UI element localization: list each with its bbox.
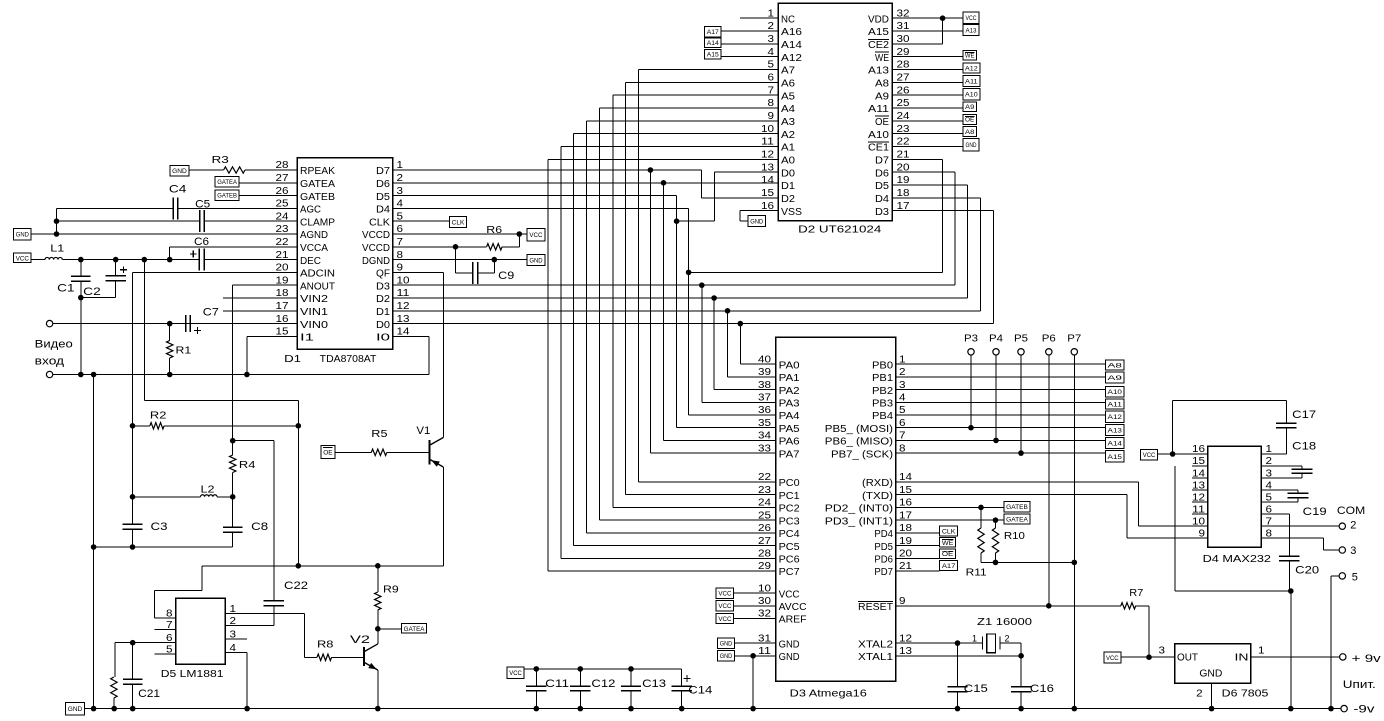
svg-text:D4: D4 (875, 194, 889, 205)
svg-text:A12: A12 (965, 66, 978, 73)
svg-text:3: 3 (1350, 545, 1356, 557)
svg-text:DGND: DGND (362, 256, 390, 267)
svg-text:C5: C5 (195, 199, 210, 211)
svg-text:D2: D2 (781, 194, 795, 205)
svg-text:VCCA: VCCA (300, 243, 328, 254)
svg-text:GND: GND (720, 653, 733, 660)
svg-text:C4: C4 (169, 184, 187, 196)
svg-text:PC3: PC3 (779, 516, 800, 527)
svg-text:D2: D2 (376, 294, 390, 305)
svg-text:PB6_ (MISO): PB6_ (MISO) (825, 437, 893, 448)
svg-text:A17: A17 (942, 563, 956, 570)
svg-text:RPEAK: RPEAK (300, 166, 335, 177)
svg-text:D3: D3 (875, 207, 889, 218)
svg-text:вход: вход (35, 356, 65, 368)
svg-text:GATEA: GATEA (300, 179, 335, 190)
svg-text:I0: I0 (376, 333, 391, 344)
svg-text:WE: WE (965, 53, 975, 60)
svg-text:NC: NC (781, 14, 795, 25)
svg-text:XTAL1: XTAL1 (858, 652, 893, 663)
svg-text:A8: A8 (875, 79, 889, 90)
svg-text:GND: GND (965, 142, 976, 149)
svg-text:PB2: PB2 (872, 386, 893, 397)
svg-text:A17: A17 (707, 29, 719, 36)
svg-text:R11: R11 (966, 568, 988, 579)
svg-text:CE1: CE1 (868, 143, 889, 154)
svg-text:GND: GND (1199, 668, 1222, 679)
svg-text:GATEB: GATEB (217, 193, 237, 200)
svg-text:R9: R9 (383, 585, 399, 596)
svg-text:PC5: PC5 (779, 542, 800, 553)
svg-text:A9: A9 (875, 91, 889, 102)
svg-text:GND: GND (16, 232, 29, 239)
svg-text:PA7: PA7 (779, 449, 800, 460)
svg-text:AVCC: AVCC (779, 602, 807, 613)
svg-text:CE2: CE2 (868, 40, 889, 51)
svg-text:C2: C2 (83, 286, 101, 298)
svg-text:PC1: PC1 (779, 491, 800, 502)
svg-text:QF: QF (376, 269, 390, 280)
svg-text:VIN2: VIN2 (300, 294, 329, 305)
svg-text:VCC: VCC (1106, 655, 1119, 662)
svg-text:A10: A10 (1108, 389, 1123, 396)
svg-text:PD3_ (INT1): PD3_ (INT1) (825, 516, 893, 527)
svg-text:C7: C7 (203, 307, 219, 319)
svg-text:P5: P5 (1014, 333, 1028, 344)
svg-text:PB3: PB3 (872, 399, 893, 410)
svg-text:AREF: AREF (779, 615, 807, 626)
svg-text:P3: P3 (964, 333, 978, 344)
svg-text:D3 Atmega16: D3 Atmega16 (790, 688, 868, 699)
svg-text:C3: C3 (151, 521, 168, 533)
svg-text:A14: A14 (781, 40, 803, 51)
svg-text:C17: C17 (1292, 409, 1316, 421)
svg-text:5: 5 (1352, 572, 1358, 584)
svg-text:C22: C22 (284, 580, 308, 592)
svg-text:AGND: AGND (300, 230, 328, 241)
svg-text:C18: C18 (1292, 441, 1316, 453)
svg-text:PB7_ (SCK): PB7_ (SCK) (831, 449, 893, 460)
svg-text:VDD: VDD (868, 14, 889, 25)
svg-text:P4: P4 (989, 333, 1003, 344)
svg-text:VCCD: VCCD (362, 230, 390, 241)
svg-text:A10: A10 (965, 92, 978, 99)
svg-text:VIN1: VIN1 (300, 307, 329, 318)
svg-text:VCC: VCC (16, 255, 29, 262)
svg-text:IN: IN (1235, 652, 1249, 663)
svg-text:PC6: PC6 (779, 554, 800, 565)
svg-text:2: 2 (1196, 689, 1203, 700)
svg-text:RESET: RESET (858, 602, 893, 613)
svg-text:A11: A11 (868, 104, 890, 115)
svg-text:GND: GND (750, 219, 763, 226)
svg-text:D5 LM1881: D5 LM1881 (161, 669, 224, 680)
svg-text:PA2: PA2 (779, 386, 800, 397)
svg-text:A11: A11 (965, 78, 978, 85)
svg-text:GND: GND (720, 641, 733, 648)
svg-text:A1: A1 (781, 143, 795, 154)
svg-text:A15: A15 (707, 52, 719, 59)
svg-text:PA5: PA5 (779, 424, 800, 435)
svg-text:GND: GND (779, 652, 800, 663)
svg-text:D4: D4 (376, 205, 390, 216)
svg-text:VCC: VCC (529, 232, 542, 239)
svg-text:A0: A0 (781, 156, 795, 167)
svg-text:PB1: PB1 (872, 373, 893, 384)
svg-text:PC0: PC0 (779, 478, 800, 489)
svg-text:A13: A13 (868, 66, 890, 77)
svg-text:C6: C6 (194, 236, 209, 248)
svg-text:A8: A8 (1108, 363, 1123, 370)
svg-text:P7: P7 (1067, 333, 1081, 344)
svg-text:L2: L2 (201, 485, 216, 496)
svg-text:C19: C19 (1303, 506, 1327, 518)
svg-text:VCC: VCC (1143, 452, 1156, 459)
svg-text:GND: GND (172, 168, 187, 175)
svg-text:A9: A9 (965, 104, 975, 111)
svg-text:D1: D1 (284, 354, 302, 365)
svg-text:1: 1 (1258, 645, 1265, 656)
svg-text:VCCD: VCCD (362, 243, 390, 254)
svg-text:3: 3 (1159, 645, 1166, 656)
svg-text:PB4: PB4 (872, 411, 893, 422)
svg-text:Z1 16000: Z1 16000 (977, 617, 1033, 628)
svg-text:D1: D1 (376, 307, 390, 318)
svg-text:VCC: VCC (779, 589, 800, 600)
svg-text:GND: GND (68, 706, 83, 713)
svg-text:D6: D6 (376, 179, 390, 190)
svg-text:AGC: AGC (300, 205, 321, 216)
svg-text:R10: R10 (1004, 531, 1025, 542)
svg-text:D2 UT621024: D2 UT621024 (798, 225, 882, 236)
svg-text:D7: D7 (376, 166, 390, 177)
svg-text:A10: A10 (868, 130, 890, 141)
svg-text:PB0: PB0 (872, 360, 893, 371)
svg-text:PD7: PD7 (874, 567, 893, 578)
svg-text:PC2: PC2 (779, 504, 800, 515)
svg-text:C9: C9 (498, 270, 514, 282)
svg-text:C1: C1 (57, 283, 74, 295)
svg-text:R6: R6 (486, 225, 502, 236)
svg-text:A14: A14 (1108, 441, 1123, 448)
svg-text:-9v: -9v (1353, 704, 1375, 716)
svg-text:C12: C12 (591, 678, 615, 690)
svg-text:PC7: PC7 (779, 567, 800, 578)
svg-text:A3: A3 (781, 117, 795, 128)
svg-text:C16: C16 (1030, 683, 1054, 695)
svg-text:CLK: CLK (942, 528, 956, 535)
svg-text:DEC: DEC (300, 256, 321, 267)
svg-text:A9: A9 (1108, 375, 1123, 382)
svg-text:R3: R3 (212, 155, 230, 166)
svg-text:PA3: PA3 (779, 399, 800, 410)
svg-text:V1: V1 (416, 425, 430, 437)
svg-text:A2: A2 (781, 130, 795, 141)
svg-text:ANOUT: ANOUT (300, 281, 335, 292)
svg-text:PB5_ (MOSI): PB5_ (MOSI) (825, 424, 893, 435)
svg-text:C14: C14 (688, 685, 712, 697)
svg-text:C13: C13 (642, 678, 666, 690)
svg-text:COM: COM (1337, 505, 1365, 517)
svg-text:VCC: VCC (718, 616, 731, 623)
svg-text:PD6: PD6 (874, 554, 893, 565)
svg-text:I1: I1 (300, 333, 315, 344)
svg-text:PD4: PD4 (874, 529, 893, 540)
svg-text:OE: OE (323, 449, 333, 456)
svg-text:GATEA: GATEA (217, 179, 237, 186)
svg-text:D5: D5 (875, 181, 889, 192)
svg-text:A14: A14 (707, 40, 719, 47)
svg-text:CLK: CLK (452, 219, 465, 226)
svg-text:TDA8708AT: TDA8708AT (320, 354, 377, 365)
svg-text:A8: A8 (965, 129, 975, 136)
svg-text:R2: R2 (150, 411, 167, 422)
svg-text:A12: A12 (1108, 414, 1123, 421)
svg-text:Uпит.: Uпит. (1343, 679, 1376, 691)
svg-text:PA4: PA4 (779, 411, 800, 422)
svg-text:A6: A6 (781, 79, 795, 90)
svg-text:C15: C15 (964, 683, 988, 695)
svg-text:D5: D5 (376, 192, 390, 203)
svg-text:A12: A12 (781, 53, 803, 64)
svg-text:GATEB: GATEB (1006, 504, 1028, 511)
svg-text:OUT: OUT (1177, 652, 1198, 663)
svg-text:PA1: PA1 (779, 373, 800, 384)
svg-text:VCC: VCC (718, 591, 731, 598)
svg-text:R7: R7 (1129, 588, 1143, 599)
svg-text:PC4: PC4 (779, 529, 800, 540)
svg-text:C8: C8 (251, 521, 268, 533)
svg-text:GATEA: GATEA (404, 626, 425, 633)
svg-text:VSS: VSS (781, 207, 802, 218)
svg-text:L1: L1 (50, 244, 65, 255)
svg-text:A13: A13 (1108, 427, 1123, 434)
svg-text:D6: D6 (875, 168, 889, 179)
svg-text:GATEB: GATEB (300, 192, 335, 203)
svg-text:(RXD): (RXD) (862, 478, 893, 489)
svg-text:V2: V2 (350, 634, 370, 646)
svg-text:D7: D7 (875, 156, 889, 167)
svg-text:R4: R4 (239, 460, 256, 471)
svg-text:A7: A7 (781, 66, 795, 77)
svg-text:A5: A5 (781, 91, 795, 102)
svg-text:D4 MAX232: D4 MAX232 (1203, 554, 1272, 565)
svg-text:A16: A16 (781, 27, 803, 38)
svg-text:PA6: PA6 (779, 437, 800, 448)
svg-text:C11: C11 (545, 678, 569, 690)
svg-text:C20: C20 (1295, 565, 1319, 577)
svg-text:R1: R1 (176, 346, 192, 357)
svg-text:A15: A15 (1108, 454, 1123, 461)
svg-text:A11: A11 (1108, 401, 1123, 408)
svg-text:OE: OE (942, 551, 954, 558)
svg-text:WE: WE (942, 540, 954, 547)
svg-text:C21: C21 (138, 688, 160, 700)
svg-text:OE: OE (965, 117, 975, 124)
svg-text:WE: WE (875, 53, 889, 64)
svg-text:CLK: CLK (369, 217, 390, 228)
svg-text:PA0: PA0 (779, 360, 800, 371)
svg-text:R5: R5 (371, 429, 388, 440)
svg-text:GND: GND (779, 639, 800, 650)
svg-text:XTAL2: XTAL2 (858, 639, 893, 650)
svg-text:VCC: VCC (718, 603, 731, 610)
svg-text:CLAMP: CLAMP (300, 217, 335, 228)
svg-text:ADCIN: ADCIN (300, 269, 335, 280)
svg-text:PD2_ (INT0): PD2_ (INT0) (825, 504, 893, 515)
svg-text:GATEA: GATEA (1006, 517, 1028, 524)
svg-text:R8: R8 (317, 640, 334, 651)
svg-text:VCC: VCC (509, 670, 522, 677)
svg-text:D1: D1 (781, 181, 795, 192)
svg-text:P6: P6 (1042, 333, 1056, 344)
svg-text:A13: A13 (965, 27, 976, 34)
svg-text:14: 14 (761, 175, 775, 186)
svg-text:VCC: VCC (965, 15, 976, 22)
svg-text:D0: D0 (376, 320, 390, 331)
svg-text:PD5: PD5 (874, 542, 893, 553)
svg-text:D0: D0 (781, 168, 795, 179)
svg-text:VIN0: VIN0 (300, 320, 329, 331)
svg-text:A15: A15 (868, 27, 890, 38)
svg-text:1: 1 (972, 634, 977, 644)
svg-text:2: 2 (1350, 520, 1356, 532)
svg-text:(TXD): (TXD) (862, 491, 893, 502)
svg-text:+ 9v: + 9v (1352, 653, 1382, 665)
svg-text:D6 7805: D6 7805 (1222, 688, 1269, 699)
svg-text:2: 2 (1005, 634, 1010, 644)
svg-text:A4: A4 (781, 104, 795, 115)
svg-text:GND: GND (529, 257, 542, 264)
svg-text:Видео: Видео (35, 338, 73, 350)
svg-text:D3: D3 (376, 281, 390, 292)
svg-text:OE: OE (875, 117, 889, 128)
